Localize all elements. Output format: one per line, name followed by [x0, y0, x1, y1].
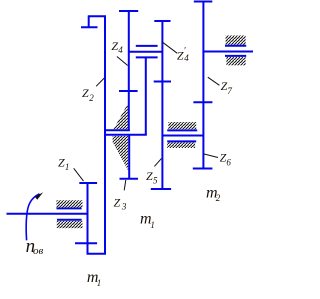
gear z1 top cap	[79, 182, 97, 184]
gear z7 lower tick	[193, 101, 212, 103]
bearing line below shaft II	[167, 140, 196, 142]
leader line z1	[74, 168, 84, 181]
rotation arrow head	[35, 192, 43, 199]
shaft II horizontal right part	[162, 135, 203, 137]
output shaft IV horizontal	[203, 51, 253, 53]
housing wall left upper line	[104, 129, 130, 131]
gear z5 bottom cap	[151, 188, 171, 190]
leader line z3	[124, 180, 126, 190]
svg-text:2: 2	[216, 193, 221, 203]
label n_ov input speed	[26, 236, 44, 257]
bearing line below output shaft	[225, 55, 246, 57]
shaft bottom U connecting line	[87, 253, 107, 255]
label z4	[111, 39, 123, 55]
bearing hatch above output shaft	[226, 36, 246, 45]
input shaft I horizontal line	[7, 213, 89, 215]
leader line z7	[208, 77, 220, 85]
gear z4 vertical stem	[128, 10, 130, 131]
label z5	[146, 169, 158, 186]
housing hatch wedge below left wall	[113, 136, 129, 171]
svg-text:3: 3	[121, 202, 127, 212]
svg-text:4: 4	[118, 45, 123, 55]
gear z3 vertical stem	[128, 135, 130, 179]
svg-text:Z: Z	[114, 195, 121, 209]
gear z5 tick	[154, 81, 171, 83]
svg-text:Z: Z	[146, 169, 153, 183]
clutch upper plate	[136, 45, 158, 47]
leader line z2	[96, 78, 104, 86]
label z1	[58, 155, 69, 172]
label m2	[206, 185, 221, 204]
bearing hatch below shaft II right	[167, 143, 195, 149]
bearing line below input shaft	[57, 219, 82, 221]
gear z4 tick	[119, 90, 138, 92]
label z6	[220, 151, 232, 168]
label m1 middle	[140, 210, 155, 230]
clutch lower plate	[136, 56, 158, 58]
bearing hatch below output shaft	[226, 57, 245, 65]
gear z4' top cap	[154, 20, 170, 22]
shaft II hook end tick	[81, 26, 98, 28]
leader line z4	[117, 57, 128, 66]
shaft II hook top horizontal	[88, 15, 106, 17]
shaft II hook short vertical	[88, 16, 90, 28]
svg-text:5: 5	[153, 176, 158, 186]
bearing hatch above shaft II right	[168, 122, 196, 129]
gear z1 vertical body	[87, 182, 89, 255]
gear z2 long vertical body	[104, 16, 106, 255]
gear z4 top cap	[119, 10, 138, 12]
svg-text:1: 1	[150, 220, 155, 230]
label z7	[221, 79, 233, 96]
label z4'	[177, 46, 189, 63]
svg-text:1: 1	[65, 162, 70, 172]
gear z6 bottom cap	[193, 168, 213, 170]
gear z4' hub vertical	[145, 57, 147, 135]
svg-text:2: 2	[89, 93, 94, 103]
svg-text:Z: Z	[82, 86, 89, 100]
bearing line above output shaft	[225, 45, 246, 47]
label z3	[114, 195, 127, 211]
rotation arrow arc	[26, 194, 39, 241]
leader line z5	[154, 158, 161, 166]
svg-text:1: 1	[97, 278, 102, 288]
gear z7 top cap	[194, 1, 213, 3]
bearing line above shaft II	[167, 129, 197, 131]
gear z1 lower tick	[75, 242, 97, 244]
leader line z6	[204, 154, 218, 158]
gear z7-z6 vertical stem	[202, 1, 204, 169]
bearing hatch above input shaft	[57, 200, 83, 207]
svg-text:4: 4	[184, 53, 189, 63]
svg-text:6: 6	[226, 157, 231, 167]
bearing line above input shaft	[57, 207, 82, 209]
svg-text:7: 7	[227, 86, 232, 96]
label m1 bottom	[87, 269, 101, 288]
label z2	[82, 86, 94, 103]
housing wall left lower line with corner	[104, 134, 147, 136]
gear z4'-z5 vertical stem	[161, 20, 163, 190]
shaft III line between z4 and z4'	[129, 51, 163, 53]
bearing hatch below input shaft	[57, 221, 83, 228]
leader line z4'	[162, 42, 177, 54]
housing hatch wedge above left wall	[114, 104, 128, 130]
svg-text:ов: ов	[33, 245, 44, 257]
gear z3 bottom cap	[120, 178, 139, 180]
